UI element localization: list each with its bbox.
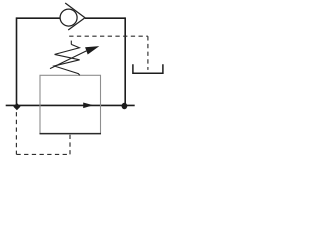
node left junction bbox=[13, 103, 20, 110]
valve body bottom edge (dark) bbox=[40, 133, 102, 135]
wire top-left (top rail from left riser to check valve) bbox=[17, 17, 61, 19]
check valve V1 seat lower line bbox=[68, 18, 85, 30]
valve body envelope (gray box) bbox=[40, 75, 101, 133]
adjustment arrow head bbox=[85, 46, 99, 54]
wire main line (port to port through valve) bbox=[6, 104, 135, 106]
spring top stub bbox=[70, 41, 72, 45]
wire right riser bbox=[124, 17, 126, 105]
check valve V1 ball bbox=[60, 9, 77, 26]
spring (zigzag) bbox=[54, 44, 80, 75]
drain dashed line horizontal bottom bbox=[16, 153, 70, 155]
drain dashed line vertical from left node bbox=[15, 112, 17, 154]
flow arrow inside valve body bbox=[83, 103, 93, 109]
node right junction bbox=[122, 103, 128, 109]
wire left riser bbox=[16, 17, 18, 105]
tank symbol bbox=[133, 64, 163, 73]
wire top-right (check valve apex to right riser) bbox=[85, 17, 125, 19]
adjustment arrow shaft bbox=[50, 51, 86, 69]
check valve V1 seat upper line bbox=[65, 3, 85, 18]
drain dashed line vertical to body bottom bbox=[69, 134, 71, 154]
pilot vent dashed line horizontal bbox=[69, 35, 148, 37]
pilot vent dashed line vertical to tank bbox=[147, 36, 149, 70]
